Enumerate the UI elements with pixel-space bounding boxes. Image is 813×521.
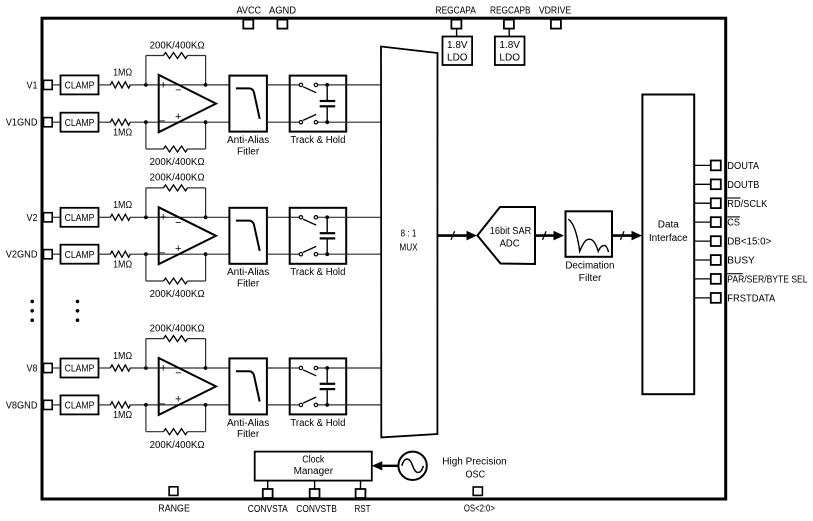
wire resistor to opamp V8 top bbox=[130, 367, 206, 369]
wire REGCAPB to LDO B bbox=[508, 29, 510, 37]
mux 8:1 bbox=[381, 47, 438, 438]
pin RD/SCLK bbox=[694, 198, 767, 210]
value label 200K/400KΩ V2 bottom bbox=[150, 289, 205, 300]
svg-text:+: + bbox=[175, 394, 181, 406]
pin CONVSTB bbox=[296, 489, 337, 515]
svg-text:Manager: Manager bbox=[294, 466, 334, 477]
pin V2GND bbox=[6, 250, 53, 261]
wire track-hold to mux V8 top bbox=[346, 367, 381, 369]
svg-text:Track & Hold: Track & Hold bbox=[290, 267, 345, 278]
svg-text:200K/400KΩ: 200K/400KΩ bbox=[150, 157, 205, 168]
clamp V2 positive bbox=[61, 208, 99, 227]
value label 1MΩ V2 top bbox=[113, 200, 132, 211]
feedback resistor 200K/400KΩ V1 top bbox=[146, 53, 206, 85]
wire opamp to anti-alias V2 top bbox=[206, 216, 230, 218]
wire V1GND to clamp bbox=[52, 121, 60, 123]
svg-text:MUX: MUX bbox=[399, 242, 418, 253]
clamp V2 negative bbox=[61, 245, 99, 264]
anti-alias filter V1 bbox=[227, 76, 269, 158]
svg-text:FRSTDATA: FRSTDATA bbox=[727, 294, 775, 305]
svg-text:1MΩ: 1MΩ bbox=[113, 200, 132, 211]
svg-text:16bit SAR: 16bit SAR bbox=[490, 226, 532, 237]
feedback resistor 200K/400KΩ V2 bottom bbox=[146, 254, 206, 284]
svg-text:V8GND: V8GND bbox=[6, 400, 38, 411]
feedback resistor 200K/400KΩ V1 bottom bbox=[146, 122, 206, 152]
adc 16bit SAR bbox=[477, 207, 535, 264]
pin CONVSTA bbox=[248, 489, 288, 515]
svg-text:V1GND: V1GND bbox=[6, 118, 38, 129]
resistor 1MΩ V2 bottom bbox=[110, 251, 130, 257]
svg-text:REGCAPB: REGCAPB bbox=[490, 5, 531, 16]
oscillator high precision OSC bbox=[398, 452, 506, 481]
resistor 1MΩ V2 top bbox=[110, 214, 130, 220]
pin V8 bbox=[27, 363, 53, 374]
svg-text:−: − bbox=[159, 248, 165, 260]
svg-text:RANGE: RANGE bbox=[158, 504, 190, 515]
junction node V1 output top bbox=[204, 83, 208, 87]
svg-text:200K/400KΩ: 200K/400KΩ bbox=[150, 323, 205, 334]
ellipsis channels 3-7 inside bbox=[76, 300, 80, 322]
clamp V1 positive bbox=[61, 75, 99, 94]
wire V2GND to clamp bbox=[52, 253, 60, 255]
svg-text:200K/400KΩ: 200K/400KΩ bbox=[150, 173, 205, 184]
svg-text:+: + bbox=[175, 111, 181, 123]
junction node V8 output bottom bbox=[204, 403, 208, 407]
svg-text:DOUTB: DOUTB bbox=[727, 180, 759, 191]
junction node V1 input top bbox=[144, 83, 148, 87]
svg-text:1.8V: 1.8V bbox=[499, 40, 520, 51]
wire clock manager to RST bbox=[360, 481, 362, 489]
svg-text:CLAMP: CLAMP bbox=[65, 81, 95, 92]
value label 1MΩ V8 bottom bbox=[113, 410, 132, 421]
wire clamp to resistor 1M V8 bottom bbox=[99, 404, 111, 406]
svg-text:OSC: OSC bbox=[466, 469, 486, 480]
junction node V1 input bottom bbox=[144, 120, 148, 124]
wire oscillator to clock manager bbox=[372, 461, 399, 470]
feedback resistor 200K/400KΩ V8 bottom bbox=[146, 405, 206, 435]
value label 200K/400KΩ V8 top bbox=[150, 323, 205, 334]
decimation filter bbox=[565, 211, 614, 284]
svg-text:1MΩ: 1MΩ bbox=[113, 68, 132, 79]
svg-text:Filter: Filter bbox=[579, 273, 602, 284]
value label 1MΩ V2 bottom bbox=[113, 259, 132, 270]
svg-text:DOUTA: DOUTA bbox=[727, 161, 759, 172]
svg-text:Fitler: Fitler bbox=[237, 429, 260, 440]
svg-text:Fitler: Fitler bbox=[237, 146, 260, 157]
svg-text:V2: V2 bbox=[27, 213, 38, 224]
junction node V8 input top bbox=[144, 366, 148, 370]
svg-text:ADC: ADC bbox=[500, 238, 520, 249]
svg-text:200K/400KΩ: 200K/400KΩ bbox=[150, 289, 205, 300]
pin DOUTA bbox=[694, 161, 759, 173]
value label 200K/400KΩ V1 top bbox=[150, 40, 205, 51]
bus mux to adc bbox=[438, 231, 478, 241]
pin V8GND bbox=[6, 400, 53, 411]
pin AGND bbox=[269, 5, 296, 28]
value label 1MΩ V1 bottom bbox=[113, 127, 132, 138]
anti-alias filter V2 bbox=[227, 208, 269, 290]
svg-text:+: + bbox=[175, 243, 181, 255]
clock manager bbox=[255, 452, 372, 481]
svg-text:RST: RST bbox=[354, 504, 370, 515]
svg-text:CLAMP: CLAMP bbox=[65, 401, 95, 412]
junction node V8 input bottom bbox=[144, 403, 148, 407]
pin RST bbox=[354, 489, 370, 515]
clamp V8 positive bbox=[61, 359, 99, 378]
wire anti-alias to track-hold V2 top bbox=[267, 216, 290, 218]
resistor 1MΩ V8 bottom bbox=[110, 402, 130, 408]
svg-text:Anti-Alias: Anti-Alias bbox=[227, 135, 269, 146]
svg-text:Fitler: Fitler bbox=[237, 279, 260, 290]
svg-text:Anti-Alias: Anti-Alias bbox=[227, 267, 269, 278]
pin CS bbox=[694, 217, 740, 229]
chip boundary bbox=[42, 18, 726, 499]
svg-text:Data: Data bbox=[658, 220, 680, 231]
value label 200K/400KΩ V2 top bbox=[150, 173, 205, 184]
wire V2 to clamp bbox=[52, 216, 60, 218]
svg-text:CLAMP: CLAMP bbox=[65, 250, 95, 261]
svg-text:200K/400KΩ: 200K/400KΩ bbox=[150, 440, 205, 451]
pin FRSTDATA bbox=[694, 293, 775, 305]
pin V2 bbox=[27, 213, 53, 224]
wire clamp to resistor 1M V2 top bbox=[99, 216, 111, 218]
wire opamp to anti-alias V2 bottom bbox=[206, 253, 230, 255]
bus decimation filter to data interface bbox=[612, 231, 642, 241]
wire opamp to anti-alias V1 bottom bbox=[206, 121, 230, 123]
clamp V1 negative bbox=[61, 113, 99, 132]
op-amp V8 bbox=[159, 358, 216, 415]
svg-text:Decimation: Decimation bbox=[565, 260, 614, 271]
op-amp V2 bbox=[159, 207, 216, 264]
feedback resistor 200K/400KΩ V2 top bbox=[146, 185, 206, 217]
svg-text:V8: V8 bbox=[27, 364, 38, 375]
wire opamp to anti-alias V8 top bbox=[206, 367, 230, 369]
wire clamp to resistor 1M V2 bottom bbox=[99, 253, 111, 255]
svg-text:DB<15:0>: DB<15:0> bbox=[727, 237, 771, 248]
svg-text:REGCAPA: REGCAPA bbox=[436, 5, 477, 16]
resistor 1MΩ V8 top bbox=[110, 365, 130, 371]
bus adc to decimation filter bbox=[535, 231, 564, 241]
wire track-hold to mux V1 bottom bbox=[346, 121, 381, 123]
anti-alias filter V8 bbox=[227, 358, 269, 440]
svg-text:−: − bbox=[159, 398, 165, 410]
wire opamp to anti-alias V8 bottom bbox=[206, 404, 230, 406]
svg-text:CS: CS bbox=[727, 218, 740, 229]
value label 1MΩ V1 top bbox=[113, 68, 132, 79]
wire anti-alias to track-hold V8 bottom bbox=[267, 404, 290, 406]
svg-text:V2GND: V2GND bbox=[6, 250, 38, 261]
wire clamp to resistor 1M V1 top bbox=[99, 84, 111, 86]
track and hold V1 bbox=[290, 76, 347, 146]
pin BUSY bbox=[694, 255, 755, 267]
svg-text:Clock: Clock bbox=[302, 454, 325, 465]
op-amp V1 bbox=[159, 75, 216, 132]
wire anti-alias to track-hold V1 top bbox=[267, 84, 290, 86]
wire V8GND to clamp bbox=[52, 404, 60, 406]
junction node V2 output bottom bbox=[204, 252, 208, 256]
svg-text:CLAMP: CLAMP bbox=[65, 213, 95, 224]
data interface block bbox=[642, 95, 694, 395]
pin REGCAPA bbox=[436, 5, 477, 28]
svg-text:1MΩ: 1MΩ bbox=[113, 259, 132, 270]
resistor 1MΩ V1 bottom bbox=[110, 119, 130, 125]
svg-text:+: + bbox=[160, 79, 166, 91]
wire track-hold to mux V2 top bbox=[346, 216, 381, 218]
pin V1GND bbox=[6, 118, 53, 129]
svg-text:1.8V: 1.8V bbox=[447, 40, 468, 51]
pin DOUTB bbox=[694, 179, 759, 191]
wire V1 to clamp bbox=[52, 84, 60, 86]
svg-text:Interface: Interface bbox=[649, 233, 688, 244]
junction node V8 output top bbox=[204, 366, 208, 370]
svg-text:BUSY: BUSY bbox=[727, 256, 755, 267]
pin DB<15:0> bbox=[694, 236, 771, 248]
pin REGCAPB bbox=[490, 5, 531, 28]
pin V1 bbox=[27, 80, 53, 91]
svg-text:200K/400KΩ: 200K/400KΩ bbox=[150, 40, 205, 51]
pin OS<2:0> bbox=[464, 487, 495, 515]
wire REGCAPA to LDO A bbox=[456, 29, 458, 37]
svg-text:PAR/SER/BYTE SEL: PAR/SER/BYTE SEL bbox=[727, 275, 808, 286]
wire resistor to opamp V8 bottom bbox=[130, 404, 206, 406]
wire track-hold to mux V2 bottom bbox=[346, 253, 381, 255]
svg-text:AVCC: AVCC bbox=[237, 5, 262, 16]
svg-text:V1: V1 bbox=[27, 80, 38, 91]
svg-text:CLAMP: CLAMP bbox=[65, 118, 95, 129]
svg-text:Anti-Alias: Anti-Alias bbox=[227, 418, 269, 429]
wire resistor to opamp V2 bottom bbox=[130, 253, 206, 255]
svg-text:OS<2:0>: OS<2:0> bbox=[464, 504, 495, 515]
svg-text:CONVSTB: CONVSTB bbox=[296, 504, 337, 515]
svg-text:Track & Hold: Track & Hold bbox=[290, 135, 345, 146]
pin RANGE bbox=[158, 487, 190, 515]
svg-text:−: − bbox=[175, 368, 181, 380]
junction node V2 input bottom bbox=[144, 252, 148, 256]
wire clock manager to CONVSTB bbox=[314, 481, 316, 489]
svg-text:−: − bbox=[159, 116, 165, 128]
wire resistor to opamp V1 top bbox=[130, 84, 206, 86]
svg-text:CLAMP: CLAMP bbox=[65, 364, 95, 375]
svg-text:RD/SCLK: RD/SCLK bbox=[727, 199, 767, 210]
svg-text:+: + bbox=[160, 362, 166, 374]
svg-text:CONVSTA: CONVSTA bbox=[248, 504, 288, 515]
svg-text:LDO: LDO bbox=[499, 53, 520, 64]
svg-text:LDO: LDO bbox=[447, 53, 468, 64]
wire opamp to anti-alias V1 top bbox=[206, 84, 230, 86]
svg-text:AGND: AGND bbox=[269, 5, 296, 16]
junction node V2 output top bbox=[204, 215, 208, 219]
wire track-hold to mux V8 bottom bbox=[346, 404, 381, 406]
track and hold V8 bbox=[290, 358, 347, 428]
pin AVCC bbox=[237, 5, 262, 28]
svg-text:High Precision: High Precision bbox=[442, 456, 506, 467]
svg-text:−: − bbox=[175, 85, 181, 97]
regulator U-LDOB 1.8V bbox=[495, 37, 525, 66]
wire clamp to resistor 1M V8 top bbox=[99, 367, 111, 369]
pin PAR/SER/BYTE SEL bbox=[694, 274, 808, 286]
svg-text:1MΩ: 1MΩ bbox=[113, 351, 132, 362]
wire track-hold to mux V1 top bbox=[346, 84, 381, 86]
wire anti-alias to track-hold V1 bottom bbox=[267, 121, 290, 123]
svg-text:Track & Hold: Track & Hold bbox=[290, 418, 345, 429]
regulator U-LDOA 1.8V bbox=[443, 37, 473, 66]
value label 200K/400KΩ V8 bottom bbox=[150, 440, 205, 451]
track and hold V2 bbox=[290, 208, 347, 278]
value label 1MΩ V8 top bbox=[113, 351, 132, 362]
junction node V1 output bottom bbox=[204, 120, 208, 124]
wire V8 to clamp bbox=[52, 367, 60, 369]
junction node V2 input top bbox=[144, 215, 148, 219]
pin VDRIVE bbox=[539, 5, 572, 28]
wire clamp to resistor 1M V1 bottom bbox=[99, 121, 111, 123]
wire anti-alias to track-hold V2 bottom bbox=[267, 253, 290, 255]
svg-text:+: + bbox=[160, 212, 166, 224]
svg-text:−: − bbox=[175, 217, 181, 229]
value label 200K/400KΩ V1 bottom bbox=[150, 157, 205, 168]
svg-text:1MΩ: 1MΩ bbox=[113, 410, 132, 421]
feedback resistor 200K/400KΩ V8 top bbox=[146, 336, 206, 368]
clamp V8 negative bbox=[61, 395, 99, 414]
svg-text:VDRIVE: VDRIVE bbox=[539, 5, 572, 16]
wire clock manager to CONVSTA bbox=[267, 481, 269, 489]
ellipsis channels 3-7 outside bbox=[30, 300, 34, 322]
wire resistor to opamp V1 bottom bbox=[130, 121, 206, 123]
wire anti-alias to track-hold V8 top bbox=[267, 367, 290, 369]
resistor 1MΩ V1 top bbox=[110, 82, 130, 88]
wire resistor to opamp V2 top bbox=[130, 216, 206, 218]
svg-text:8 : 1: 8 : 1 bbox=[401, 228, 417, 239]
svg-text:1MΩ: 1MΩ bbox=[113, 127, 132, 138]
